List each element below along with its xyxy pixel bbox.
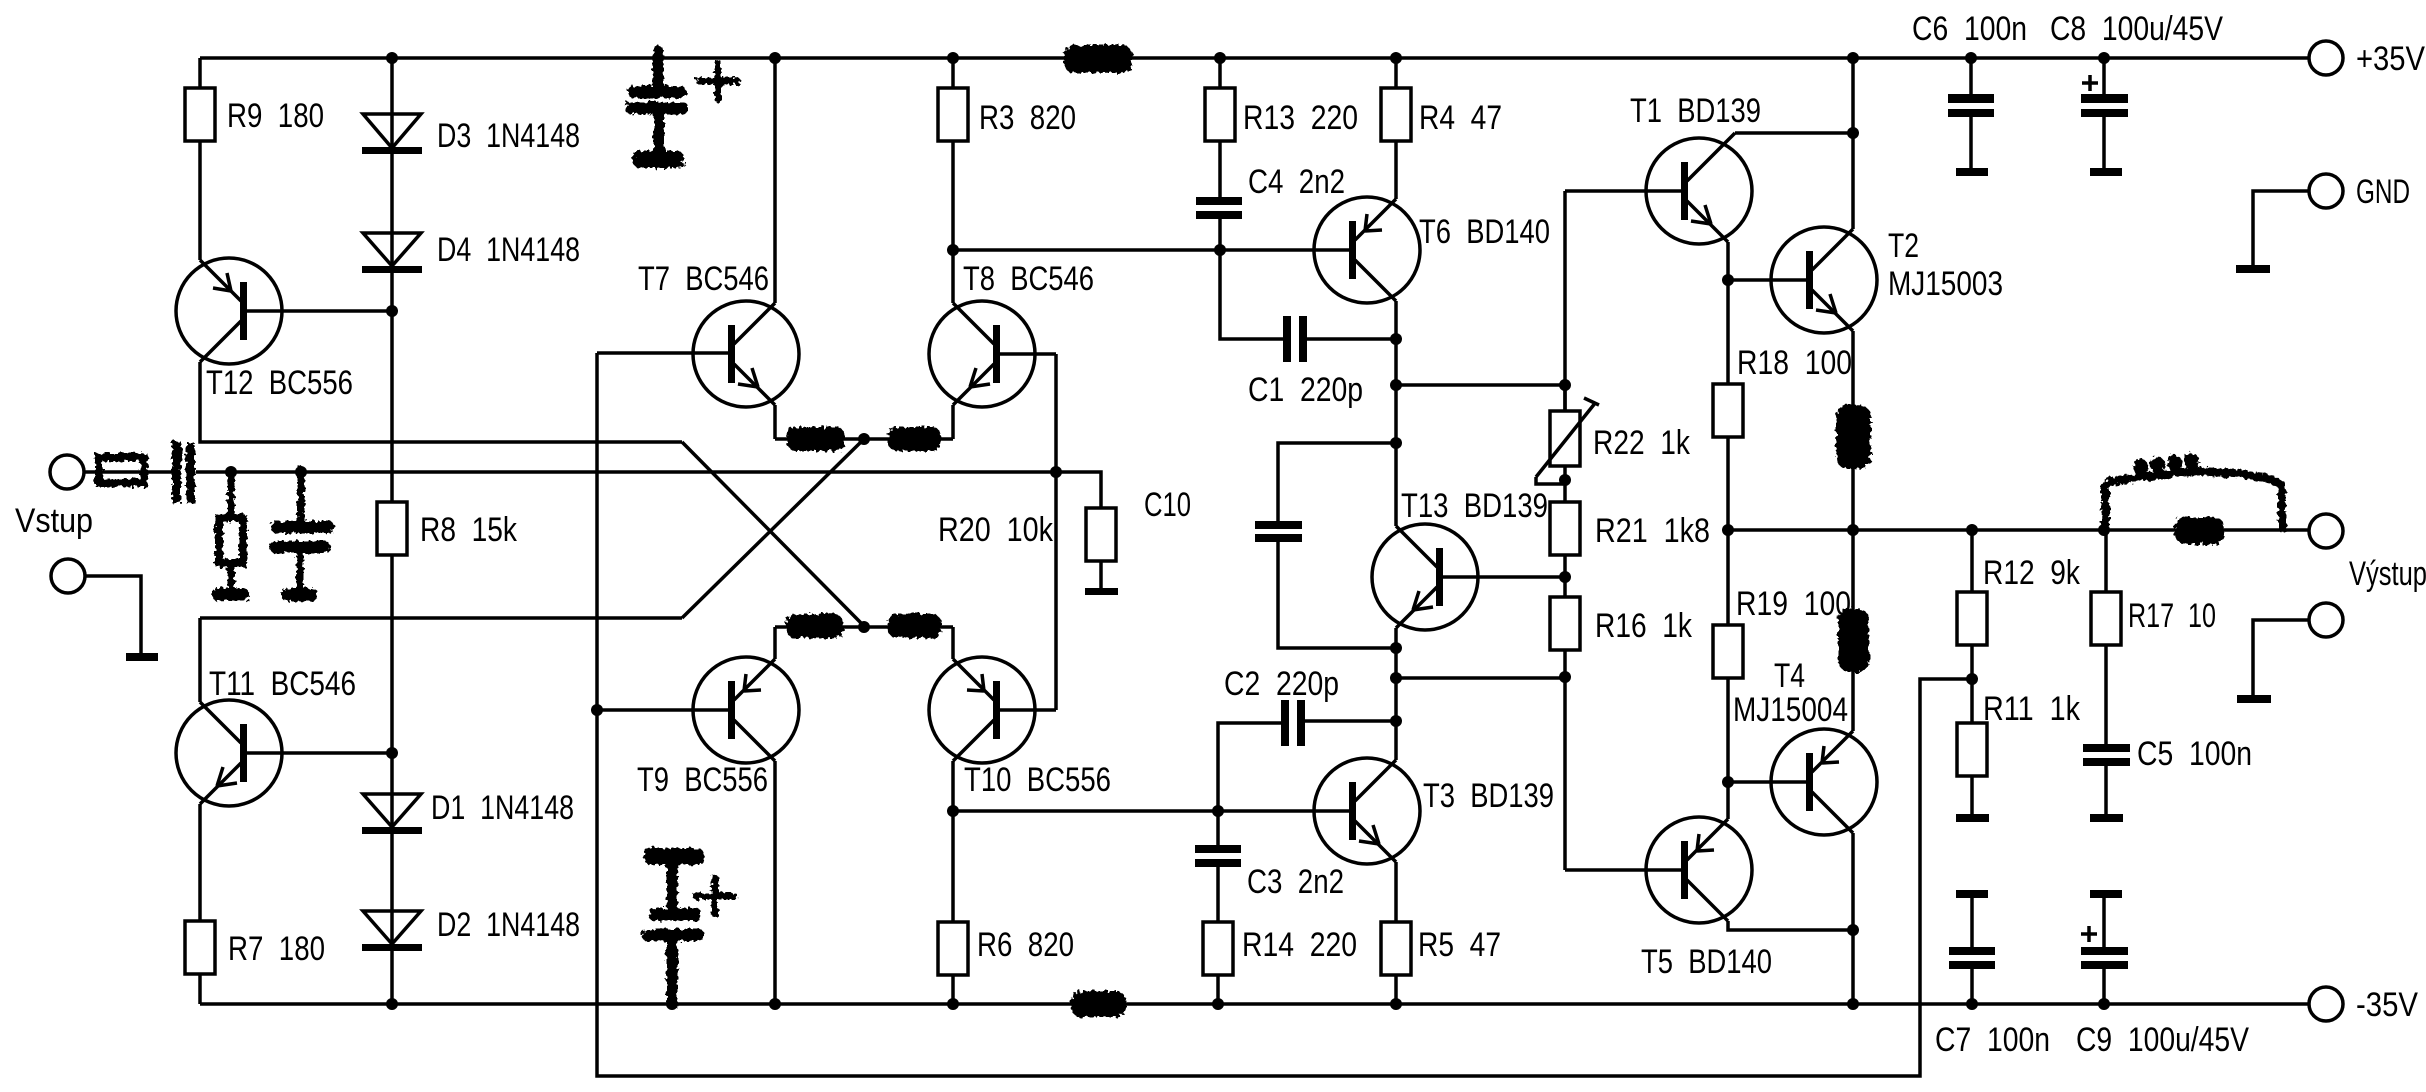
node rail R4: [1390, 52, 1402, 64]
svg-text:GND: GND: [2356, 173, 2410, 211]
node T1/T2 collector junction: [1847, 127, 1859, 139]
wire T6 base line: [953, 248, 1349, 252]
svg-text:D3 1N4148: D3 1N4148: [437, 117, 580, 155]
transistor T12 BC556: [176, 258, 353, 402]
capacitor (scribbled, unlabeled) input coupling: [172, 441, 195, 503]
wire T8 base to input column: [1000, 354, 1056, 710]
node VAS line left junction: [1390, 379, 1402, 391]
node GND terminal: [2309, 173, 2410, 211]
svg-text:Výstup: Výstup: [2349, 555, 2426, 593]
ground GND terminal ground bar: [2236, 265, 2270, 273]
svg-text:R4 47: R4 47: [1419, 99, 1502, 137]
svg-text:R20 10k: R20 10k: [938, 511, 1054, 549]
svg-text:T4: T4: [1774, 657, 1805, 695]
node Vystup output terminal: [2309, 514, 2426, 593]
svg-text:T2: T2: [1888, 227, 1919, 265]
capacitor (scribbled electrolytic, unlabeled) lower rail: [642, 848, 734, 1002]
node VAS line right junction: [1559, 379, 1571, 391]
node T2/T4 emitter output junction: [1847, 524, 1859, 536]
wire T11 collector up and right: [200, 618, 682, 702]
resistor (scribbled, unlabeled) input series: [99, 457, 144, 483]
node T11 base / D1 junction: [386, 747, 398, 759]
node C2-C3 / T3 base junction: [1212, 805, 1224, 817]
wire T7 emitter: [773, 405, 777, 439]
svg-text:C2 220p: C2 220p: [1224, 665, 1339, 703]
svg-text:T10 BC556: T10 BC556: [964, 761, 1111, 799]
transistor T7 BC546: [638, 260, 799, 407]
resistor R14 220: [1203, 922, 1357, 1004]
svg-text:C4 2n2: C4 2n2: [1248, 163, 1345, 201]
wire VAS output to T1 base column: [1396, 383, 1565, 387]
svg-text:C10: C10: [1144, 486, 1191, 524]
ground input ground bar: [126, 653, 158, 661]
wire T5 collector to T4 collector column: [1728, 921, 1853, 930]
node Vstup input terminal: [15, 455, 93, 540]
svg-text:T11 BC546: T11 BC546: [209, 665, 356, 703]
inductor (scribbled bead) on +35V rail: [1064, 45, 1132, 73]
node input junction 1: [225, 466, 237, 478]
node R22 wiper junction: [1559, 474, 1571, 486]
svg-text:R18 100: R18 100: [1737, 344, 1852, 382]
transistor T1 BD139: [1630, 92, 1761, 244]
svg-text:C7 100n: C7 100n: [1935, 1021, 2050, 1059]
node bottom rail D2: [386, 998, 398, 1010]
wire T9 collector to -35V rail: [773, 761, 777, 1004]
node T12 base / D4 junction: [386, 305, 398, 317]
node bottom rail R6: [947, 998, 959, 1010]
transistor T5 BD140: [1641, 817, 1772, 981]
capacitor C8 100u/45V: [2050, 10, 2223, 176]
wire input line: [84, 470, 1056, 474]
resistor R12 9k: [1957, 530, 2081, 723]
wire T10 emitter: [951, 627, 955, 659]
node rail C8: [2098, 52, 2110, 64]
svg-text:+35V: +35V: [2356, 40, 2425, 78]
wire T1 collector line: [1735, 131, 1853, 135]
svg-text:R5 47: R5 47: [1418, 926, 1501, 964]
transistor T4 MJ15004: [1733, 657, 1877, 835]
capacitor C5 100n: [2083, 735, 2252, 822]
svg-text:C5 100n: C5 100n: [2137, 735, 2252, 773]
node bottom rail fuzzy cap: [666, 998, 678, 1010]
node R19 / T5 emitter / T4 base junction: [1722, 776, 1734, 788]
transistor T3 BD139: [1314, 758, 1554, 864]
svg-text:T8 BC546: T8 BC546: [963, 260, 1094, 298]
node rail T1/T2: [1847, 52, 1859, 64]
resistor R20 10k: [938, 472, 1118, 595]
svg-text:R6 820: R6 820: [977, 926, 1074, 964]
wire upper emitter coupling line: [775, 437, 953, 441]
node R3 / T8 collector / T6 base junction: [947, 244, 959, 256]
transistor T9 BC556: [637, 657, 799, 799]
svg-text:C8 100u/45V: C8 100u/45V: [2050, 10, 2223, 48]
node R17 / output network junction: [2098, 524, 2110, 536]
capacitor C7 100n: [1935, 890, 2050, 1059]
wire +35V top rail: [200, 56, 2309, 60]
node input to T8/T10 bases junction: [1050, 466, 1062, 478]
svg-text:T5 BD140: T5 BD140: [1641, 943, 1772, 981]
svg-text:T6 BD140: T6 BD140: [1419, 213, 1550, 251]
svg-text:R11 1k: R11 1k: [1983, 690, 2081, 728]
node rail R13: [1214, 52, 1226, 64]
node bottom rail T9 collector: [769, 998, 781, 1010]
svg-text:T12 BC556: T12 BC556: [206, 364, 353, 402]
node T10 collector / R6 / T3 base junction: [947, 805, 959, 817]
wire -35V bottom rail: [200, 1002, 2309, 1006]
wire diagonal T11 collector to upper diff pair tail: [682, 439, 864, 618]
resistor R5 47: [1381, 922, 1501, 1004]
resistor R9 180: [185, 58, 324, 260]
diode D4 1N4148: [362, 231, 580, 311]
transistor T6 BD140: [1314, 197, 1550, 303]
resistor R7 180: [185, 804, 325, 1004]
node rail fuzzy cap: [652, 52, 664, 64]
svg-text:D2 1N4148: D2 1N4148: [437, 906, 580, 944]
wire T10 collector down: [951, 761, 955, 811]
svg-text:R12 9k: R12 9k: [1983, 554, 2081, 592]
node rail T7 collector: [769, 52, 781, 64]
wire T12 base to diode chain: [247, 309, 392, 313]
wire T13 base: [1443, 575, 1565, 579]
svg-text:R3 820: R3 820: [979, 99, 1076, 137]
svg-text:R13 220: R13 220: [1243, 99, 1358, 137]
node bottom rail R5: [1390, 998, 1402, 1010]
resistor R21 1k8: [1550, 502, 1710, 597]
node output ground return terminal: [2309, 603, 2343, 637]
capacitor C2 220p: [1218, 665, 1396, 845]
svg-text:T7 BC546: T7 BC546: [638, 260, 769, 298]
wire output ground return lead: [2253, 620, 2309, 695]
node C10 top junction: [1390, 437, 1402, 449]
svg-text:D4 1N4148: D4 1N4148: [437, 231, 580, 269]
wire T3 emitter: [1394, 862, 1398, 922]
resistor R19 100: [1713, 530, 1851, 782]
svg-text:R21 1k8: R21 1k8: [1595, 512, 1710, 550]
node T13 base / R21-R16 junction: [1559, 571, 1571, 583]
svg-text:T9 BC556: T9 BC556: [637, 761, 768, 799]
node R18 / output line junction: [1722, 524, 1734, 536]
node input junction 2: [295, 466, 307, 478]
resistor R3 820: [938, 58, 1076, 250]
node T4 collector / T5 collector junction: [1847, 924, 1859, 936]
capacitor C9 100u/45V: [2076, 890, 2249, 1059]
wire T3 base line: [953, 809, 1349, 813]
node T1 emitter / T2 base junction: [1722, 274, 1734, 286]
node feedback / T9 base junction: [591, 704, 603, 716]
wire T9 base from feedback node: [597, 708, 728, 712]
capacitor C6 100n: [1912, 10, 2027, 176]
node input ground terminal: [51, 559, 85, 593]
resistor (scribbled, unlabeled) input shunt with ground: [212, 472, 249, 601]
wire GND terminal lead: [2253, 191, 2309, 265]
diode D2 1N4148: [362, 834, 580, 1004]
resistor (scribbled) T7 emitter: [787, 427, 845, 451]
wire T7 base from feedback corner: [597, 351, 728, 355]
wire T2 emitter to output node: [1851, 331, 1855, 530]
wire lower emitter coupling line: [775, 625, 953, 629]
wire T1 emitter column: [1726, 242, 1730, 384]
wire T8 collector: [951, 250, 955, 303]
resistor (scribbled) T8 emitter: [888, 427, 941, 451]
capacitor C4 2n2: [1196, 163, 1345, 250]
resistor R11 1k: [1956, 690, 2081, 822]
node rail C6: [1965, 52, 1977, 64]
node bottom rail C9: [2098, 998, 2110, 1010]
svg-text:T3 BD139: T3 BD139: [1423, 777, 1554, 815]
ground output ground bar: [2237, 695, 2271, 703]
wire T2 base: [1728, 278, 1806, 282]
capacitor C1 220p: [1220, 250, 1396, 409]
resistor (scribbled) T9 emitter: [786, 614, 843, 638]
node C10 bottom junction: [1390, 642, 1402, 654]
svg-text:MJ15004: MJ15004: [1733, 691, 1848, 729]
node lower emitter center junction: [858, 621, 870, 633]
svg-text:R17 10: R17 10: [2128, 597, 2216, 635]
node +35V terminal: [2309, 40, 2425, 78]
wire R16 bottom to T13 emitter column: [1396, 676, 1565, 680]
capacitor (scribbled electrolytic, unlabeled) upper rail: [625, 51, 737, 168]
node R12 / output line junction: [1966, 524, 1978, 536]
node -35V terminal: [2309, 986, 2418, 1024]
resistor R18 100: [1713, 344, 1852, 530]
svg-text:R8 15k: R8 15k: [420, 511, 518, 549]
resistor (scribbled) T10 emitter: [888, 614, 941, 638]
resistor (scribbled) T4 emitter: [1838, 608, 1869, 672]
svg-text:R7 180: R7 180: [228, 930, 325, 968]
node bottom rail T4 collector: [1847, 998, 1859, 1010]
wire T1 base: [1565, 191, 1681, 411]
wire output line: [1728, 528, 2309, 532]
resistor (scribbled) parallel output: [2175, 517, 2224, 544]
node C2 / T3 collector junction: [1390, 715, 1402, 727]
wire T5 base: [1565, 868, 1681, 872]
node R12 / R11 / feedback junction: [1966, 673, 1978, 685]
diode D3 1N4148: [362, 58, 580, 232]
node bottom rail R14: [1212, 998, 1224, 1010]
wire T4 emitter up to output node: [1851, 530, 1855, 731]
svg-text:D1 1N4148: D1 1N4148: [431, 789, 574, 827]
svg-text:T13 BD139: T13 BD139: [1401, 487, 1548, 525]
resistor R17 10: [2091, 530, 2216, 744]
node rail D3: [386, 52, 398, 64]
wire T9 emitter: [773, 627, 777, 659]
node upper emitter center junction: [858, 433, 870, 445]
inductor (hand-drawn output coil): [2105, 457, 2282, 528]
svg-text:C1 220p: C1 220p: [1248, 371, 1363, 409]
wire diagonal T12 collector to lower diff pair tail: [682, 442, 864, 626]
svg-text:Vstup: Vstup: [15, 502, 93, 540]
node bottom rail C7: [1966, 998, 1978, 1010]
wire T5 emitter up to T4 base node: [1726, 782, 1730, 819]
capacitor C10 2n2 across T13: [1255, 443, 1396, 648]
svg-text:T1 BD139: T1 BD139: [1630, 92, 1761, 130]
capacitor (scribbled, unlabeled) input shunt with ground: [270, 470, 334, 601]
wire T4 base: [1728, 780, 1806, 784]
svg-text:C3 2n2: C3 2n2: [1247, 863, 1344, 901]
node rail R3: [947, 52, 959, 64]
node C1 / T6 collector junction: [1390, 333, 1402, 345]
svg-text:R14 220: R14 220: [1242, 926, 1357, 964]
resistor R6 820: [938, 811, 1074, 1004]
diode D1 1N4148: [362, 753, 574, 834]
wire input ground lead: [85, 576, 141, 653]
node T13 emitter line / R16 bottom link junction: [1390, 672, 1402, 684]
wire T8 emitter: [951, 405, 955, 439]
svg-text:R19 100: R19 100: [1736, 585, 1851, 623]
resistor R4 47: [1381, 58, 1502, 199]
wire T7 collector to +35V rail: [773, 58, 777, 303]
wire T12 collector down and right: [200, 362, 682, 442]
transistor T10 BC556: [929, 657, 1111, 799]
wire T2 collector to rail: [1851, 58, 1855, 229]
transistor T2 MJ15003: [1771, 227, 2003, 333]
svg-text:R22 1k: R22 1k: [1593, 424, 1691, 462]
transistor T11 BC546: [176, 665, 356, 806]
resistor (scribbled) T2 emitter: [1836, 405, 1871, 469]
transistor T8 BC546: [929, 260, 1094, 407]
node C4 / T6 base junction: [1214, 244, 1226, 256]
svg-text:MJ15003: MJ15003: [1888, 265, 2003, 303]
wire T6 collector column: [1394, 301, 1398, 526]
svg-text:-35V: -35V: [2356, 986, 2418, 1024]
resistor R16 1k: [1550, 597, 1693, 870]
transistor T13 BD139: [1372, 487, 1548, 630]
svg-text:C6 100n: C6 100n: [1912, 10, 2027, 48]
resistor R8 15k: [377, 311, 518, 753]
wire feedback network line: [597, 353, 1972, 1076]
wire T13 emitter column: [1394, 628, 1398, 760]
wire T11 base: [247, 751, 392, 755]
resistor R13 220: [1205, 58, 1358, 197]
inductor (scribbled bead) on -35V rail: [1071, 991, 1126, 1017]
svg-text:C9 100u/45V: C9 100u/45V: [2076, 1021, 2249, 1059]
wire T10 base: [1000, 708, 1056, 712]
trimmer R22 1k: [1536, 385, 1691, 502]
capacitor C3 2n2: [1195, 845, 1344, 922]
wire T4 collector to -35V rail: [1851, 833, 1855, 1004]
node R16 bottom junction: [1559, 671, 1571, 683]
svg-text:R9 180: R9 180: [227, 97, 324, 135]
svg-text:R16 1k: R16 1k: [1595, 607, 1693, 645]
